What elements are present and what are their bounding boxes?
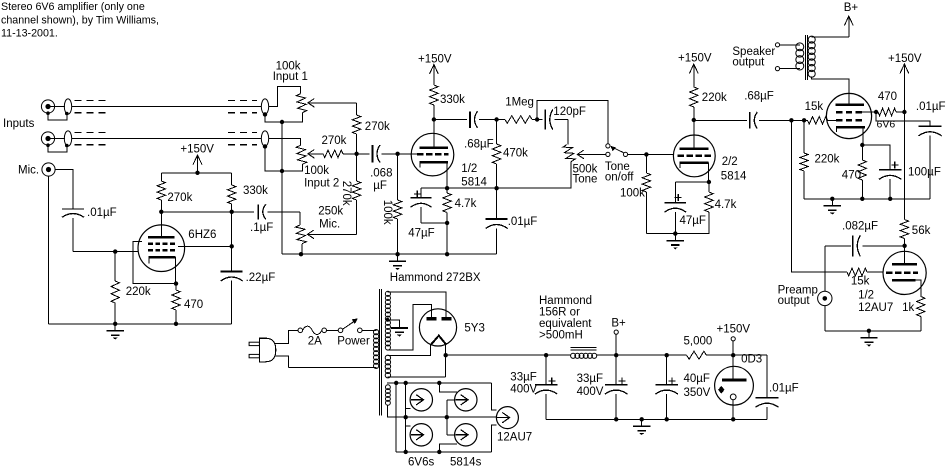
resistor 100k V1 grid [397,154,399,200]
svg-text:0D3: 0D3 [741,354,762,366]
wire primary to 6V6 anode [811,77,849,105]
heater 6V6 lower [410,424,432,446]
tube 12AU7 envelope [883,251,926,294]
svg-text:156R or: 156R or [539,307,580,319]
5Y3 plate left [426,317,436,320]
wire pot3 bottom [301,244,303,254]
svg-text:5814: 5814 [461,176,487,188]
svg-text:.01µF: .01µF [769,383,799,395]
resistor 270k 6HZ6 plate [160,173,162,181]
capacitor .01uF V1 out [496,188,498,219]
wire V2 ground bus [646,233,675,235]
wire tone bypass [537,100,608,144]
wire 330k node down [231,212,233,272]
svg-text:33µF: 33µF [510,372,536,384]
svg-text:>500mH: >500mH [539,330,583,342]
12AU7 cathode [892,279,915,282]
node 220k grid return [802,118,806,122]
wire plug bottom lead [275,356,289,367]
svg-text:33µF: 33µF [577,373,603,385]
svg-text:channel shown), by Tim William: channel shown), by Tim Williams, [1,14,159,26]
svg-text:56k: 56k [912,225,931,237]
ground V2 stage [674,234,676,241]
svg-text:Input 1: Input 1 [273,71,308,83]
tube 0D3 envelope [715,366,754,405]
node V1 anode [432,117,436,121]
node pot2 bottom [280,169,284,173]
12AU7 cathode lead [915,280,920,297]
resistor 470 screen [878,108,896,116]
node 330k bottom [230,210,234,214]
wire V1 ground bus [282,253,497,255]
svg-text:5,000: 5,000 [684,336,713,348]
tube 5Y3 envelope [419,309,456,346]
capacitor .082uF [825,245,851,247]
svg-text:15k: 15k [851,276,870,288]
svg-text:B+: B+ [844,2,859,14]
wire 5V return [388,376,446,378]
svg-text:+150V: +150V [888,53,922,65]
ground preamp [868,331,870,338]
svg-text:40µF: 40µF [684,373,710,385]
resistor 470k [496,120,498,145]
V2 cathode [680,161,709,164]
resistor 15k preamp [847,268,867,276]
svg-text:+150V: +150V [678,52,712,64]
heater UL stub [406,408,411,410]
terminal +150V supply [731,337,735,341]
node cable1 shield drop [263,112,267,116]
choke core [571,346,597,348]
node V2 anode [692,118,696,122]
svg-text:.22µF: .22µF [246,272,276,284]
6HZ6 grid bracket [133,242,176,284]
resistor 56k [900,220,908,239]
wire cable1 tip to pot1 [269,87,301,107]
node 6HZ6 anode [159,210,163,214]
transformer power primary [373,329,378,368]
heater feeder vertical [405,383,407,452]
transformer power 6.3V winding [385,385,390,406]
svg-text:.01µF: .01µF [87,207,117,219]
wire preamp takeoff down [791,120,847,272]
power arrow +150V V1 [433,65,435,86]
svg-text:+150V: +150V [717,323,751,335]
svg-text:.01µF: .01µF [916,101,946,113]
node filter cap3 [665,353,669,357]
6HZ6 cathode lead [175,257,177,284]
svg-text:270k: 270k [340,181,352,206]
heater right box top [491,383,496,410]
svg-text:350V: 350V [684,387,711,399]
power arrow +150V output [903,64,905,80]
wire pot1 bottom [282,113,303,122]
wire fuse to switch [327,329,339,331]
wire 6V6 cathode bus [804,198,930,200]
heater LR feeder [439,444,457,452]
svg-text:Mic.: Mic. [18,165,39,177]
resistor 100k V2 grid [645,154,647,173]
6HZ6 anode [160,212,162,237]
wire plug bottom [288,366,376,368]
transformer power HV secondary [385,291,390,350]
node tone input [494,117,498,121]
svg-text:.068: .068 [370,167,392,179]
wire switch to primary [362,329,376,331]
terminal speaker 1 [775,43,779,47]
svg-text:+150V: +150V [180,144,214,156]
capacitor .68uF V1 [434,119,467,121]
capacitor .01uF mic [62,208,84,210]
svg-text:1Meg: 1Meg [505,97,534,109]
resistor 330k [231,173,233,185]
jack input 1 [41,100,54,113]
svg-text:Stereo 6V6 amplifier (only one: Stereo 6V6 amplifier (only one [1,1,145,13]
wire plug top [275,330,298,343]
shielded cable input 1 [64,99,71,114]
5Y3 filament [431,336,447,345]
svg-text:.082µF: .082µF [842,221,878,233]
ground HV center tap [398,325,400,328]
svg-text:11-13-2001.: 11-13-2001. [1,27,58,39]
ground output stage [831,199,833,206]
wire +150V rail 1 [161,172,231,174]
capacitor 47uF V2 [674,182,676,203]
0D3 anode [732,355,734,380]
6V6 screen lead [862,111,876,113]
wire mic tip [55,170,73,209]
svg-text:5814: 5814 [721,171,747,183]
wire tone wiper [577,153,606,155]
node 470k bottom [494,186,498,190]
resistor 270k mic feed [356,154,358,181]
jack input 2 [41,132,54,145]
svg-text:output: output [778,295,811,307]
resistor 330k V1 plate [430,85,438,105]
capacitor .01uF supply [766,355,768,398]
svg-text:270k: 270k [167,192,192,204]
svg-text:2/2: 2/2 [722,156,738,168]
svg-text:.1µF: .1µF [250,222,273,234]
svg-text:on/off: on/off [605,172,634,184]
5Y3 filament right leg [445,345,447,355]
transformer output primary [808,36,815,77]
svg-text:1/2: 1/2 [858,290,874,302]
transformer power 5V winding [385,355,390,378]
svg-text:100k: 100k [620,187,645,199]
wire pot2 bottom [282,164,303,171]
6V6 cathode [836,126,865,129]
6V6 cathode lead [862,127,864,145]
svg-text:1/2: 1/2 [461,163,477,175]
svg-text:+150V: +150V [418,53,452,65]
node 12AU7 anode [902,244,906,248]
node cable2 shield drop [263,144,267,148]
capacitor 40uF 350V [666,355,668,384]
heater right box bottom [491,425,496,452]
wire pot3 wiper [307,233,356,235]
capacitor .22uF [221,271,243,273]
choke winding [571,353,597,358]
svg-text:.68µF: .68µF [464,139,494,151]
svg-text:4.7k: 4.7k [455,198,477,210]
shielded cable input 2 [64,131,71,146]
resistor 220k V2 plate [690,87,698,107]
svg-text:220k: 220k [815,154,840,166]
svg-text:100k: 100k [304,165,329,177]
resistor 220k 6V6 grid [803,120,805,153]
plug AC [249,342,259,345]
V2 cathode lead [708,163,710,182]
heater 5814 lower [455,424,477,446]
heater LL stub [406,425,411,427]
heater left vertical [395,383,397,452]
svg-text:1k: 1k [902,302,914,314]
svg-text:330k: 330k [440,94,465,106]
svg-text:6V6s: 6V6s [408,457,434,469]
svg-text:5Y3: 5Y3 [464,323,484,335]
resistor 470 6V6 cathode [861,145,863,160]
potentiometer 100k Input 1 [296,94,307,113]
svg-text:120pF: 120pF [553,106,586,118]
V1 cathode [420,161,448,164]
wire B+ rail [446,354,571,356]
power arrow B+ [848,16,850,37]
resistor 220k 6HZ6 grid [114,252,116,281]
ground first stage [114,324,116,331]
jack mic [42,163,55,176]
5Y3 plate right [441,317,451,320]
ground supply [641,419,643,426]
jack preamp output [824,246,826,291]
capacitor 33uF 400V first [545,355,547,384]
transformer output secondary [796,43,804,70]
resistor 470 6HZ6 cathode [175,284,177,290]
wire B+ to primary [811,36,849,38]
svg-text:400V: 400V [577,386,604,398]
svg-text:270k: 270k [322,135,347,147]
svg-text:470: 470 [878,91,897,103]
0D3 cathode [730,394,736,400]
svg-text:100µF: 100µF [908,167,941,179]
wire first stage ground bus [49,323,232,325]
wire supply ground bus [546,418,767,420]
svg-text:Hammond: Hammond [539,295,592,307]
capacitor 33uF 400V second [615,355,617,384]
tube 6V6 envelope [826,93,871,138]
svg-text:4.7k: 4.7k [715,199,737,211]
tube V1 envelope [411,133,454,176]
svg-text:2A: 2A [308,335,322,347]
svg-text:Power: Power [337,335,370,347]
svg-text:output: output [732,56,765,68]
node 270k junction [354,152,358,156]
svg-text:Inputs: Inputs [3,118,35,130]
node V2 grid [644,152,648,156]
svg-text:400V: 400V [510,384,537,396]
node pot1 bottom [280,120,284,124]
node preamp takeoff [789,118,793,122]
wire V1 cathode node [421,187,497,189]
tube V2 envelope [673,135,715,177]
resistor 1Meg [497,119,505,121]
node V1 grid [395,152,399,156]
V1 cathode lead [446,162,448,188]
node B+ takeoff [444,353,448,357]
wire +150V down [903,112,905,220]
heater 6V6 upper [410,389,432,411]
6V6 grid [836,119,862,122]
svg-text:Tone: Tone [573,174,598,186]
V2 grid [678,155,712,158]
6V6 anode [836,104,864,107]
12AU7 grid [886,271,918,274]
heater bottom bus [396,451,491,453]
power arrow +150V first stage [197,155,199,173]
svg-text:330k: 330k [243,185,268,197]
ground V1 stage [397,254,399,261]
wire anode node [161,211,254,213]
0D3 gas dot [718,386,724,394]
svg-text:.01µF: .01µF [508,216,538,228]
svg-text:Mic.: Mic. [319,219,340,231]
wire V2 cathode node [675,181,709,183]
node 0D3 anode [731,353,735,357]
switch Power [338,328,343,333]
svg-text:220k: 220k [126,286,151,298]
wire preamp ground bus [825,330,921,332]
5Y3 filament left leg [388,345,431,355]
wire input ground bus vertical [281,122,283,254]
wire HV top to right plate [388,292,447,319]
svg-text:5814s: 5814s [450,457,482,469]
potentiometer 100k Input 2 [296,145,307,164]
node screen +150V [902,110,906,114]
capacitor 47uF V1 [420,188,422,198]
wire tone pot bottom [497,162,572,189]
svg-text:470k: 470k [503,148,528,160]
wire to tone pot [567,120,569,145]
switch Tone on/off [606,144,610,148]
capacitor .68uF V2 [694,119,747,121]
heater 5814 upper [455,389,477,411]
capacitor 120pF [544,110,546,130]
V2 anode [693,120,695,149]
svg-text:µF: µF [373,180,387,192]
resistor 270k to V1 grid [356,103,358,115]
12AU7 anode [904,246,906,264]
6HZ6 screen lead [178,245,232,247]
svg-text:15k: 15k [805,101,824,113]
wire pot1 wiper [308,102,357,104]
transformer output core [804,35,806,80]
svg-text:470: 470 [184,299,203,311]
resistor 15k 6V6 grid [808,117,828,125]
wire mic to grid [73,251,138,253]
svg-text:Input 2: Input 2 [304,177,339,189]
resistor 270k pot2 wiper [308,153,323,155]
node 1Meg out [535,117,539,121]
tube 6HZ6 envelope [138,225,185,272]
svg-text:6HZ6: 6HZ6 [188,229,216,241]
svg-text:47µF: 47µF [408,228,434,240]
heater UR feeder [439,383,457,392]
resistor 1k [917,297,925,317]
6HZ6 cathode [148,256,175,259]
6V6 screen [836,111,862,114]
resistor 5000 [687,351,707,359]
wire mic ground [48,176,50,324]
resistor 4.7k V2 [708,182,710,192]
wire switch to V2 grid [628,153,674,155]
svg-text:.68µF: .68µF [744,91,774,103]
fuse 2A [298,328,303,333]
svg-text:47µF: 47µF [680,215,706,227]
svg-text:12AU7: 12AU7 [858,302,893,314]
resistor 4.7k V1 [446,188,448,193]
svg-text:B+: B+ [611,318,626,330]
svg-text:100k: 100k [381,200,393,225]
node filter cap2 [614,353,618,357]
V1 grid [417,153,449,156]
terminal B+ [614,330,618,334]
node pot3 bottom [299,252,303,256]
6HZ6 grid rows [148,242,176,245]
capacitor .1uF [257,204,259,219]
wire cable2 tip to pot2 [269,139,301,146]
capacitor .01uF screen [876,112,930,126]
svg-text:220k: 220k [702,92,727,104]
wire HV bottom to left plate [388,305,432,350]
heater top bus [387,382,491,384]
svg-text:Hammond 272BX: Hammond 272BX [390,272,481,284]
svg-text:270k: 270k [365,121,390,133]
svg-text:equivalent: equivalent [539,318,592,330]
HV center tap [386,318,390,322]
capacitor .068uF [357,153,370,155]
svg-text:12AU7: 12AU7 [497,431,532,443]
V1 anode [433,120,435,148]
capacitor 100uF [862,145,890,170]
heater middle bus [388,405,497,417]
potentiometer 250k Mic [299,212,301,225]
node filter cap1 [544,353,548,357]
svg-text:250k: 250k [318,206,343,218]
terminal speaker 2 [775,67,779,71]
heater 12AU7 [496,407,518,429]
transformer power core [378,289,380,416]
potentiometer 500k Tone [563,145,576,162]
power arrow +150V V2 [693,64,695,87]
